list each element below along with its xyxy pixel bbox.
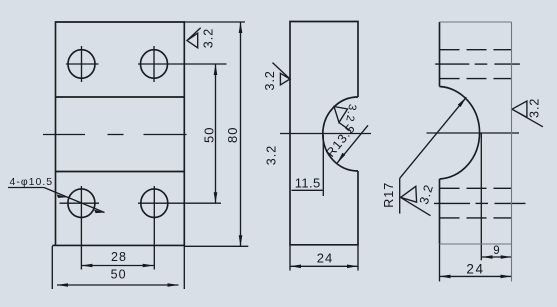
dim 24 view3 — [440, 275, 512, 277]
dim 28 line — [81, 265, 153, 267]
arrowheads — [57, 22, 512, 287]
svg-text:9: 9 — [493, 245, 500, 257]
svg-text:4-φ10.5: 4-φ10.5 — [10, 176, 54, 188]
R17 arc — [440, 87, 480, 180]
80 bottom extension line — [184, 245, 248, 247]
svg-text:24: 24 — [466, 262, 484, 277]
svg-text:24: 24 — [317, 251, 333, 266]
notch roughness symbol — [334, 107, 351, 132]
svg-text:3.2: 3.2 — [202, 28, 216, 48]
R17 arrow — [458, 97, 467, 107]
hidden lines bottom — [440, 188, 513, 218]
24 view3 arrows — [440, 275, 451, 279]
24 view2 arrows — [290, 264, 301, 268]
R13.5 leader — [337, 125, 368, 163]
svg-text:28: 28 — [111, 250, 127, 264]
leader 4-phi10.5 — [8, 187, 44, 189]
hole bottom-right — [141, 189, 168, 218]
VIEW 3 thin gray edges — [440, 22, 512, 281]
dim 80 right vertical line — [240, 22, 242, 246]
50 bottom arrows — [57, 283, 68, 287]
dim 50 bottom line — [57, 284, 179, 286]
svg-text:50: 50 — [202, 127, 217, 143]
svg-text:3.2: 3.2 — [263, 70, 277, 90]
R17 label shelf + leader — [399, 178, 401, 213]
svg-text:11.5: 11.5 — [295, 176, 321, 191]
dim 24 view2 — [289, 245, 291, 271]
svg-text:3.2: 3.2 — [527, 98, 541, 118]
hole bottom-left — [68, 189, 95, 218]
hole top-left crosshair — [66, 46, 99, 82]
50 right vertical arrows — [214, 64, 218, 75]
28 dim arrows — [81, 264, 92, 268]
80 top extension line — [184, 21, 245, 23]
left edge roughness symbol view2 — [273, 63, 291, 85]
svg-text:80: 80 — [225, 127, 240, 143]
dim 11.5 extension + underline — [322, 135, 324, 196]
top hole centerline view3 — [435, 63, 520, 65]
svg-text:50: 50 — [111, 268, 127, 282]
bottom hole centerline view3 — [434, 202, 526, 204]
dim 9 — [482, 256, 512, 258]
dashed centerline view1 — [43, 134, 187, 136]
view3 mid centerline — [427, 132, 520, 134]
view2 centerline — [280, 133, 371, 135]
svg-text:3.2: 3.2 — [265, 145, 279, 165]
4-phi10.5 leader arrows — [57, 194, 67, 197]
right edge roughness symbol view3 — [512, 101, 543, 127]
VIEW 1: front view outline — [52, 22, 184, 245]
hidden lines top — [440, 50, 513, 79]
tangent vertical line — [480, 133, 482, 260]
hole top-right — [141, 50, 168, 79]
VIEW 3: left edge black — [439, 22, 441, 87]
R17 roughness symbol — [401, 186, 431, 215]
roughness symbol view1 top-right — [187, 28, 201, 48]
internal edge upper — [56, 96, 185, 98]
9 dim arrows — [482, 255, 493, 259]
notch arc R13.5 — [323, 97, 358, 171]
svg-text:R17: R17 — [382, 182, 396, 208]
hole top-left — [68, 50, 95, 79]
dim 50 right vertical line — [215, 64, 217, 203]
hole top-right crosshair + extension to 50 dim — [138, 46, 227, 82]
hole bottom-left crosshair + extension down for 28 dim — [60, 186, 100, 270]
VIEW 2: outline — [290, 22, 358, 245]
hole bottom-right crosshair + extensions — [138, 186, 221, 270]
80 arrows — [239, 22, 243, 33]
internal edge lower — [56, 171, 185, 173]
R13.5 arrow — [337, 153, 345, 163]
